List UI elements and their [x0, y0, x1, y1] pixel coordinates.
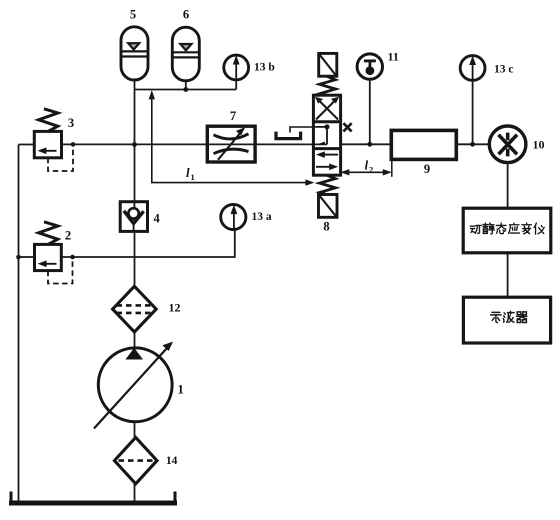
pressure gauge 13a — [221, 204, 246, 229]
svg-text:13 b: 13 b — [254, 62, 275, 74]
pressure gauge 13b — [224, 55, 249, 80]
solenoid valve 8: bottom spring — [320, 175, 336, 195]
wire: pump1 to filter14 — [134, 422, 136, 438]
dashed pilot line of valve 3 — [48, 148, 73, 172]
l1 measuring line with arrows — [149, 91, 313, 185]
svg-text:10: 10 — [533, 138, 545, 152]
glyph 波 — [503, 311, 514, 322]
relief valve 3 body — [34, 131, 61, 157]
wire: main line valve8 to box9 — [341, 143, 392, 145]
l2 measuring line with arrows — [342, 160, 392, 177]
glyph 应 — [509, 223, 520, 233]
oscilloscope box — [463, 297, 550, 343]
check valve 4 — [120, 202, 147, 232]
wire: left vertical return line — [18, 145, 20, 502]
specimen box 9 — [391, 130, 456, 159]
wire: valve3 left port — [19, 144, 35, 146]
filter 14 — [114, 437, 157, 483]
spring of valve 3 — [39, 109, 58, 132]
plugged port X mark — [343, 123, 351, 131]
pressure gauge 13c — [460, 56, 485, 81]
svg-text:11: 11 — [388, 50, 399, 64]
svg-text:8: 8 — [323, 220, 329, 234]
svg-text:7: 7 — [230, 109, 236, 123]
glyph 变 — [522, 223, 532, 234]
solenoid valve 8: bottom solenoid box — [319, 195, 338, 218]
node: junction right of valve 3 — [71, 142, 76, 147]
svg-text:6: 6 — [183, 8, 189, 22]
flow meter 10 — [489, 126, 526, 163]
oscilloscope text 示波器 (drawn glyphs) — [491, 311, 527, 322]
accumulator 5 — [121, 27, 148, 80]
svg-text:1: 1 — [178, 383, 184, 397]
wire: accumulator header line — [135, 89, 237, 91]
node: valve 8 pilot junction — [325, 124, 330, 129]
svg-text:12: 12 — [169, 301, 181, 315]
svg-text:3: 3 — [68, 116, 74, 130]
wire: gauge11 drop — [369, 79, 371, 144]
node: left line at valve 2 — [16, 255, 21, 260]
glyph 态 — [496, 223, 506, 233]
svg-text:l: l — [186, 165, 190, 180]
svg-text:13 a: 13 a — [252, 211, 272, 223]
dashed pilot line of valve 2 — [48, 260, 73, 284]
strain amplifier box — [463, 208, 551, 253]
glyph 器 — [517, 312, 527, 323]
node: gauge 11 on main line — [367, 142, 372, 147]
glyph 仪 — [534, 223, 544, 234]
glyph 静 — [483, 223, 494, 234]
svg-text:13 c: 13 c — [494, 64, 513, 76]
valve 8 cell 3 flow arrows — [316, 152, 338, 170]
throttle valve 7 — [207, 126, 255, 162]
wire: accumulator6 stub — [185, 81, 187, 90]
node: gauge 13c on main line — [470, 142, 475, 147]
wire: strain box to oscilloscope — [507, 253, 509, 297]
solenoid valve 8: top spring — [320, 76, 336, 95]
svg-text:2: 2 — [65, 229, 71, 243]
tank rail at bottom — [9, 492, 177, 504]
valve 8 cell 2 internal path — [315, 127, 328, 144]
node: junction right of valve 2 — [70, 255, 75, 260]
node: accumulator 6 on header — [183, 87, 188, 92]
valve 8 drain tank symbol — [276, 132, 301, 139]
valve 8 cell 1 crossed arrows — [315, 97, 338, 119]
wire: valve2 left port — [19, 256, 35, 258]
svg-text:4: 4 — [153, 212, 160, 226]
svg-text:5: 5 — [130, 8, 136, 22]
wire: gauge13b stub — [235, 80, 237, 90]
svg-text:2: 2 — [369, 165, 373, 175]
thermometer gauge 11 — [357, 54, 382, 79]
svg-text:l: l — [365, 158, 369, 173]
wire: valve2 line to gauge13a — [61, 230, 235, 257]
spring of valve 2 — [39, 222, 58, 245]
wire: gauge13c drop — [472, 81, 474, 145]
wire: flowmeter10 to strain box — [507, 163, 509, 208]
relief valve 2 body — [35, 244, 62, 270]
solenoid valve 8: body — [313, 95, 340, 175]
valve 8 drain line to tank — [290, 127, 315, 133]
accumulator 6 — [172, 27, 199, 81]
wire: filter12 to pump1 — [134, 332, 136, 348]
svg-text:1: 1 — [191, 172, 195, 182]
glyph 示 — [491, 312, 501, 322]
variable pump 1 — [94, 342, 172, 428]
strain amplifier text 动静态应变仪 (drawn glyphs) — [470, 223, 544, 234]
filter 12 — [113, 286, 157, 332]
wire: filter14 to tank — [134, 484, 136, 502]
glyph 动 — [470, 225, 481, 233]
wire: box9 to flowmeter10 — [456, 143, 489, 145]
solenoid valve 8: top solenoid box — [319, 53, 337, 76]
svg-text:14: 14 — [166, 455, 178, 467]
wire: main pressure line from valve3 to valve8 — [62, 143, 328, 145]
wire: check valve to filter12 — [134, 231, 136, 286]
svg-text:9: 9 — [424, 162, 430, 176]
wire: pump riser acc5 to check valve — [134, 80, 136, 202]
node: pump riser on main line — [132, 142, 137, 147]
